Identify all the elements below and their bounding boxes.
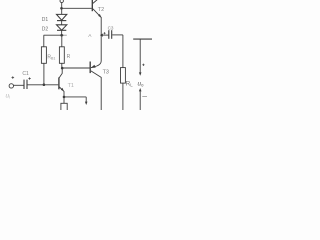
svg-text:R: R bbox=[67, 54, 71, 60]
svg-text:C3: C3 bbox=[108, 26, 114, 31]
svg-text:T3: T3 bbox=[103, 69, 109, 75]
svg-text:T1: T1 bbox=[68, 83, 74, 89]
svg-text:D2: D2 bbox=[42, 26, 49, 32]
svg-text:C1: C1 bbox=[22, 71, 29, 77]
svg-text:T2: T2 bbox=[98, 7, 104, 13]
svg-text:D1: D1 bbox=[42, 17, 49, 23]
